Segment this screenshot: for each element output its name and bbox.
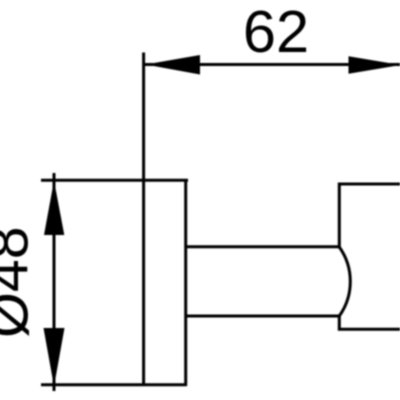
fillet arc between arm and knob bbox=[339, 247, 350, 316]
extension line left of 62 dimension / plate inner edge bbox=[142, 53, 145, 387]
extension line bottom of Ø48 / plate bottom edge bbox=[41, 383, 187, 386]
arrowhead left of 62 dimension bbox=[146, 55, 201, 75]
svg-text:62: 62 bbox=[243, 0, 309, 65]
arrowhead right of 62 dimension bbox=[349, 56, 400, 74]
dimension line 62 bbox=[144, 63, 400, 66]
extension line top of Ø48 / plate top edge bbox=[41, 179, 188, 182]
arrowhead top of Ø48 dimension bbox=[44, 181, 64, 236]
arrowhead bottom of Ø48 dimension bbox=[44, 328, 65, 387]
knob end outline bbox=[339, 184, 400, 329]
plate right edge bbox=[184, 180, 187, 386]
hook arm top edge bbox=[186, 245, 340, 248]
svg-text:Ø48: Ø48 bbox=[0, 226, 41, 338]
dimension line Ø48 bbox=[53, 173, 56, 391]
hook arm bottom edge bbox=[186, 315, 340, 318]
